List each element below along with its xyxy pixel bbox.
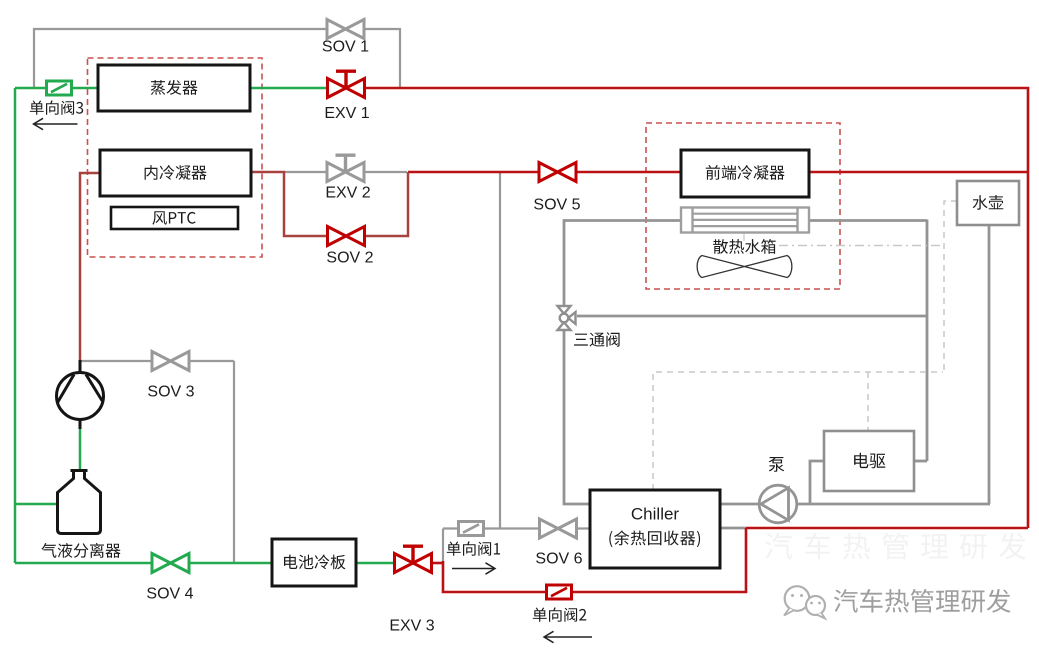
label 单向阀3 check valve 3: [30, 100, 83, 114]
dashed control line chiller top: [653, 372, 943, 490]
dashed control line radiator to kettle: [779, 245, 944, 247]
wire separator side stub: [15, 503, 57, 506]
svg-text:EXV 1: EXV 1: [324, 105, 369, 122]
gas-liquid separator 气液分离器: [58, 471, 101, 534]
svg-text:SOV 4: SOV 4: [146, 586, 193, 603]
svg-text:EXV 2: EXV 2: [325, 185, 370, 202]
label 风PTC air PTC: [152, 211, 195, 225]
wire EXV2 line to SOV6 line: [499, 172, 501, 529]
wire EXV2 inlet segment: [284, 171, 407, 173]
valve EXV 1: [328, 71, 365, 97]
three-way valve 三通阀: [558, 306, 576, 330]
label 前端冷凝器 front condenser: [706, 165, 785, 180]
wire three-way valve to chiller: [564, 330, 590, 504]
valve SOV 3: [152, 352, 189, 371]
wire check valve 2 return line: [443, 528, 746, 592]
evaporator box 蒸发器: [98, 65, 250, 111]
wire EXV3 outlet stub: [430, 562, 444, 565]
front-end module dashed enclosure: [646, 123, 840, 289]
radiator label leader: [743, 232, 745, 241]
label 蒸发器 evaporator: [151, 80, 198, 95]
valve SOV 6: [540, 519, 577, 538]
dashed control line kettle: [944, 201, 957, 372]
wire evaporator outlet to EXV1: [250, 87, 329, 90]
radiator 散热水箱 symbol: [681, 208, 809, 233]
check valve 3: [47, 81, 72, 95]
check valve 2: [547, 585, 572, 599]
svg-text:SOV 1: SOV 1: [322, 39, 369, 56]
label 气液分离器 separator: [41, 543, 120, 558]
inner condenser box 内冷凝器: [100, 150, 251, 196]
fan symbol: [697, 256, 792, 278]
wire SOV4 line to battery plate: [15, 562, 272, 565]
wire condenser line to right loop: [408, 171, 1028, 174]
wire inner condenser inlet riser: [80, 173, 100, 360]
valve EXV 3: [395, 546, 432, 572]
valve SOV 5: [539, 163, 576, 182]
label 单向阀1 check valve 1: [447, 541, 500, 555]
arrow check valve 1 flow direction: [452, 563, 495, 574]
label 余热回收器 chiller subtitle: [609, 530, 700, 547]
svg-text:SOV 6: SOV 6: [535, 551, 582, 568]
wire left suction riser: [14, 88, 17, 563]
wire SOV1 bypass loop: [34, 29, 400, 88]
battery cold plate box 电池冷板: [272, 539, 356, 586]
air PTC box 风PTC: [111, 207, 238, 229]
wire hot gas main top line: [364, 88, 1028, 528]
wire radiator right down leg: [926, 220, 929, 462]
wire chiller bottom red line: [746, 527, 1028, 530]
wire motor-drive right port: [914, 460, 927, 463]
label 单向阀2 check valve 2: [533, 607, 587, 621]
wire radiator right: [809, 219, 927, 222]
wire radiator left: [564, 221, 680, 307]
valve EXV 2: [327, 155, 364, 181]
kettle box 水壶: [957, 181, 1019, 225]
svg-text:SOV 3: SOV 3: [147, 384, 194, 401]
check valve 1: [459, 522, 484, 536]
wire battery plate to EXV3: [356, 562, 396, 565]
svg-text:Chiller: Chiller: [631, 505, 680, 524]
dashed control line motor drive top: [867, 372, 869, 431]
wire SOV3 down leg: [233, 361, 235, 563]
watermark ghost text: [765, 533, 1026, 560]
wire kettle down leg: [988, 225, 991, 504]
HVAC module dashed enclosure: [88, 58, 263, 257]
label 泵 pump: [769, 457, 785, 472]
label 水壶 kettle: [973, 195, 1004, 210]
valve SOV 4: [152, 554, 189, 573]
wire compressor suction stem: [79, 418, 82, 429]
watermark text 汽车热管理研发: [834, 589, 1011, 613]
compressor: [57, 373, 104, 420]
valve SOV 1: [327, 20, 364, 39]
front condenser box 前端冷凝器: [681, 150, 809, 197]
wire chiller to pump and kettle line: [720, 503, 990, 506]
arrow check valve 2 flow direction: [544, 631, 592, 642]
svg-text:SOV 5: SOV 5: [533, 197, 580, 214]
label 电池冷板 battery cold plate: [284, 555, 346, 570]
svg-text:EXV 3: EXV 3: [389, 618, 434, 635]
wire inner condenser outlet and SOV2 loop: [251, 172, 408, 236]
wire chiller bottom stub: [720, 527, 746, 530]
label 三通阀 three-way valve: [574, 332, 620, 347]
label 散热水箱 radiator: [713, 239, 776, 254]
wire compressor suction: [79, 428, 82, 472]
label 内冷凝器 inner condenser: [145, 165, 207, 180]
wire compressor discharge stem: [79, 360, 82, 374]
wire check-valve-1 / SOV6 line: [443, 527, 590, 529]
wire three-way valve right branch: [577, 315, 927, 318]
pump 泵: [759, 485, 797, 523]
wire evaporator inlet with check valve 3: [15, 87, 98, 90]
valve SOV 2: [328, 227, 365, 246]
motor drive box 电驱: [824, 431, 914, 491]
arrow check valve 3 flow direction: [34, 118, 78, 129]
wire check-valve-1 left drop: [442, 529, 444, 562]
chiller box: [590, 490, 720, 568]
svg-text:SOV 2: SOV 2: [326, 250, 373, 267]
watermark wechat logo: [784, 586, 825, 618]
wire motor-drive left port drop: [810, 461, 824, 504]
wire SOV3 branch: [81, 360, 234, 362]
label 电驱 motor drive: [854, 453, 885, 468]
